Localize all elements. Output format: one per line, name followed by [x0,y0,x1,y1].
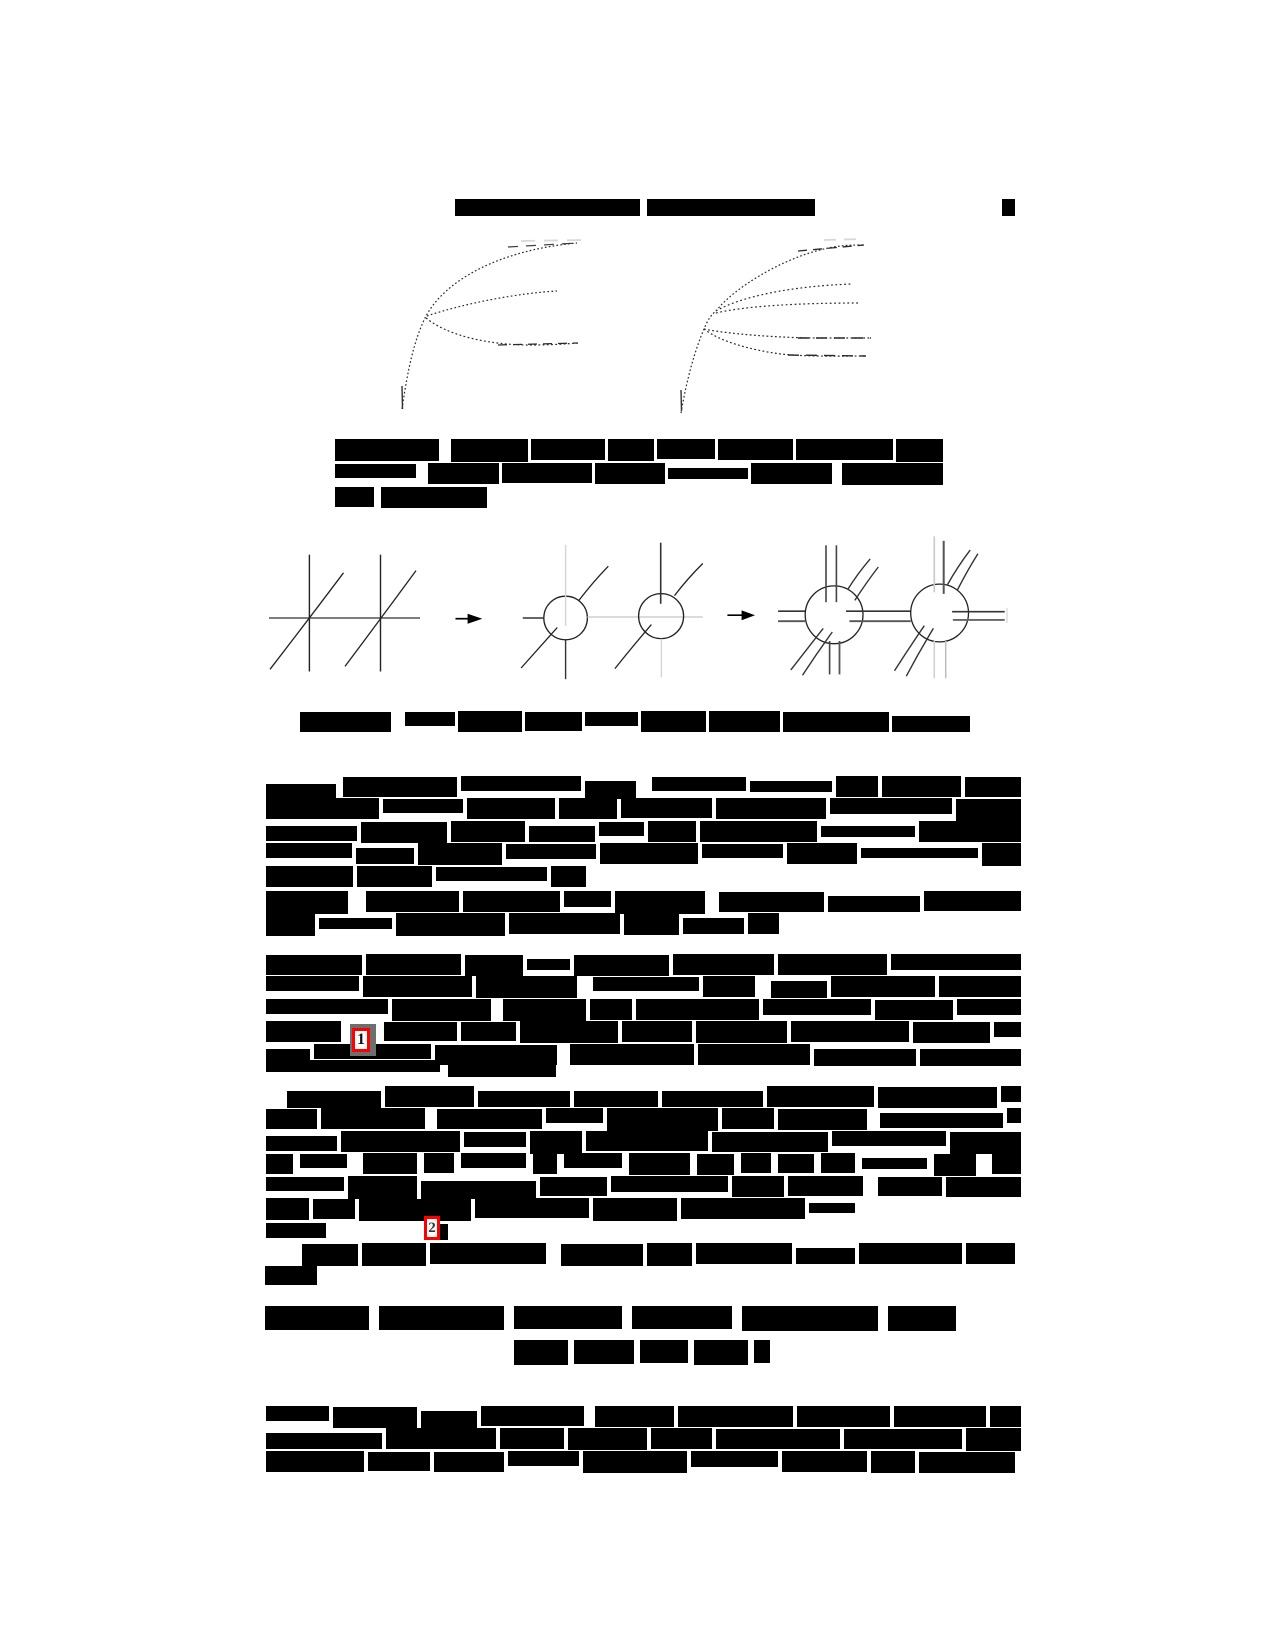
c1 diagonal upper right [579,566,608,600]
paragraph 1 line 1 [343,777,457,797]
paragraph C line 2 [266,1109,317,1129]
final paragraph line 2 [266,1433,382,1449]
blow-up circle 3 [805,586,863,644]
c2 dark vertical above [660,543,662,604]
left curve: stem and top branch [402,243,577,409]
final paragraph line 1 [266,1406,329,1421]
figure 1 caption line 3 [335,487,374,507]
arrow 1 [456,618,471,620]
lemma line 2 [266,913,315,936]
c1 dark vertical below [565,640,567,679]
c2 diagonal lower left [615,625,652,669]
running head right part [647,199,815,216]
right curve: branch 2 [716,284,853,311]
figure 1 caption line 2 [335,464,416,478]
right curve: branch 5 [704,329,866,356]
paragraph B line 5 [266,1049,310,1065]
c1 diagonal lower left [521,628,557,669]
paragraph B line 6: link bar [266,1060,440,1072]
paragraph C line 4 (mathy) [266,1154,293,1174]
c1 light vertical above [565,545,567,626]
left curve: bottom branch [426,318,578,345]
c4 diagonal pair lower left [895,626,925,671]
blow-up circle 2 [639,594,684,639]
paragraph 1 line 2 [266,798,379,819]
citation box 1 gray backing [350,1024,376,1056]
paragraph C line 5 [266,1177,344,1191]
citation box 1 red frame [352,1028,370,1052]
part1 diagonal a [270,573,344,670]
c4 diagonal pair upper right [948,550,971,585]
paragraph C line 6 [266,1198,309,1220]
lemma line 1 [266,891,348,914]
right curve: branch 4 [704,329,871,338]
blow-up circle 4 [911,584,969,642]
left curve: faint extensions [521,240,584,241]
c3 diagonal pair upper right [848,559,871,590]
c3 vertical pair above [825,545,827,602]
c2 diagonal upper right [675,564,703,596]
horizontal pair right of c4 [952,611,1005,613]
paragraph B line 4 (with citation box 1) [266,1021,341,1042]
c1 dark horizontal left [523,617,544,619]
figure 2 caption: bold label [300,712,391,732]
paragraph 1 line 3 [266,826,357,841]
horizontal pair left of c3 [778,610,805,612]
part1 horizontal line [269,617,420,619]
c3 vertical pair below [829,641,831,674]
paragraph B line 2 [266,976,359,991]
page number [1002,199,1015,216]
paragraph C line 3 [266,1136,337,1151]
left curve: middle branch [427,291,557,316]
figure 2 caption text [405,712,455,726]
paragraph 1 line 4 [266,843,352,858]
citation box 2 red frame [424,1216,440,1240]
running head left part [455,199,640,216]
right curve: top branch [716,245,864,311]
part1 diagonal b [345,571,416,667]
part1 vertical line a [308,555,310,672]
light horizontal across [587,616,702,618]
blow-up circle 1 [544,596,588,640]
paragraph B line 3 [266,999,388,1014]
c2 light vertical below [660,639,662,678]
figure 1 caption line 1 [335,439,439,461]
paragraph 1 line 5 (short) [266,866,353,887]
right curve: faint extensions [824,239,864,240]
final paragraph line 3 [266,1451,364,1472]
horizontal pair c3 to c4 [846,610,911,612]
c3 diagonal pair lower left [791,628,823,670]
right curve: branch 3 [716,303,858,313]
arrow 2 [727,614,744,616]
c4 vertical pair above [933,536,935,592]
paragraph C line 1 [287,1091,381,1108]
heading line 2 (formula) [514,1340,568,1365]
right curve: stem [681,311,716,413]
paragraph C line 7 with citation box 2 [266,1223,326,1238]
c4 vertical pair below [933,641,935,678]
part1 vertical line b [380,555,382,672]
paragraph 1 run-in label [266,784,336,805]
heading line 1 [265,1306,369,1330]
paragraph B line 1 [266,955,362,975]
closing line long [302,1244,358,1266]
closing line short [265,1266,317,1285]
